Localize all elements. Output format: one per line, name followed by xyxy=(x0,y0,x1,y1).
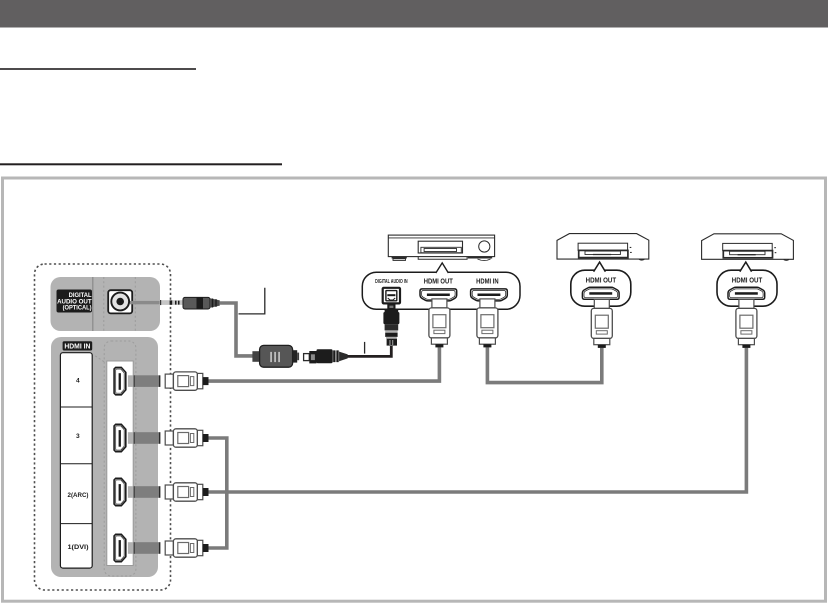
svg-text:1(DVI): 1(DVI) xyxy=(68,544,89,551)
svg-text:3: 3 xyxy=(76,433,80,440)
svg-text:HDMI OUT: HDMI OUT xyxy=(732,275,763,284)
svg-text:HDMI IN: HDMI IN xyxy=(64,344,90,351)
svg-text:4: 4 xyxy=(76,377,80,384)
svg-text:HDMI IN: HDMI IN xyxy=(476,277,499,286)
svg-text:HDMI OUT: HDMI OUT xyxy=(424,277,453,286)
svg-text:HDMI OUT: HDMI OUT xyxy=(586,275,617,284)
svg-text:(OPTICAL): (OPTICAL) xyxy=(63,305,92,312)
svg-text:DIGITAL AUDIO IN: DIGITAL AUDIO IN xyxy=(375,279,408,285)
svg-text:2(ARC): 2(ARC) xyxy=(68,492,89,499)
